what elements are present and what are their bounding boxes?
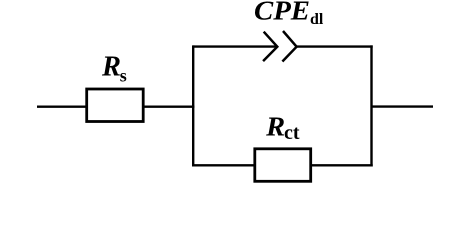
svg-text:CPE: CPE: [254, 0, 310, 26]
svg-text:R: R: [101, 51, 121, 82]
svg-text:dl: dl: [310, 11, 324, 28]
svg-text:R: R: [265, 112, 285, 142]
svg-text:s: s: [120, 66, 127, 86]
svg-text:ct: ct: [284, 122, 300, 144]
